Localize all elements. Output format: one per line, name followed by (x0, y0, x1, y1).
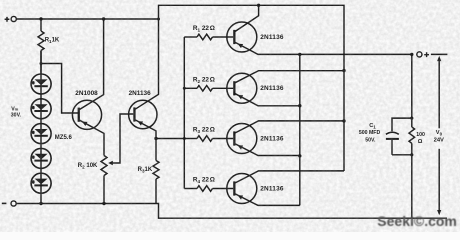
zener diode D3 MZ5.6 (31, 124, 51, 144)
emitter arrow driver (138, 121, 144, 125)
resistor R3 1K (153, 161, 159, 180)
V0 arrow line lower with down arrowhead (438, 149, 440, 213)
transistor Q3 2N1136 output pass (227, 22, 257, 52)
emitter arrow Q6 (238, 195, 244, 199)
wire driver collector up to input rail (135, 19, 158, 109)
node junction dot emitter bus Q4 row (298, 104, 301, 107)
wire output branch down to C1 and 100 ohm (411, 54, 413, 127)
potentiometer R2 10K (101, 156, 107, 176)
node junction dot base bus row2 (183, 87, 186, 90)
node junction dot R2 bottom (102, 202, 105, 205)
wiper arm of R2 to driver base (111, 114, 134, 163)
wire emitter output bus vertical (299, 54, 301, 205)
node junction dot R1 top (39, 17, 42, 20)
resistor 100 ohm load (409, 127, 415, 143)
wire zener diode string vertical (40, 51, 42, 204)
node junction dot top tie (410, 117, 413, 120)
emitter arrow Q3 (238, 44, 244, 48)
wire top rail from + terminal (16, 18, 158, 20)
resistor R1 1K (40, 19, 42, 31)
resistor R2 22 ohm base resistor (184, 87, 197, 89)
wire 2N1008 emitter to R2 (80, 120, 105, 155)
node junction dot Q1 collector on top rail (257, 4, 260, 7)
wire base tap from zener string to 2N1008 base (41, 64, 79, 114)
resistor R1 22 ohm base resistor (184, 36, 197, 38)
zener diode D4 MZ5.6 (31, 148, 51, 168)
wire 2N1008 collector to input rail (80, 19, 104, 110)
wire driver emitter down to R3 (135, 120, 156, 161)
wire Q6 collector (235, 171, 344, 183)
node junction dot emitter bus Q3 row (298, 53, 301, 56)
node junction dot emitter bus Q5 row (298, 154, 301, 157)
input terminal - (negative) (2, 202, 7, 204)
transistor Q5 2N1136 output pass (227, 124, 257, 154)
wire bottom negative rail (16, 204, 447, 219)
node junction dot base bus row3 (183, 137, 186, 140)
resistor R4 22 ohm base resistor (184, 188, 197, 190)
wire bottom tie bar from C1 (392, 154, 412, 156)
node junction dot Q2 collector on right bus (342, 69, 345, 72)
node junction dot 2N1008 collector top (102, 17, 105, 20)
output voltage indicator V0 24V top bar (431, 53, 448, 55)
wire driver emitter to base bus (156, 138, 184, 140)
transistor Q6 2N1136 output pass (227, 174, 257, 204)
zener diode D1 MZ5.6 (31, 74, 51, 94)
wire top tie bar to C1 (392, 118, 412, 131)
wire Q5 collector (235, 121, 344, 133)
output terminal + (positive) (410, 53, 413, 56)
node junction dot Q3 collector on right bus (342, 119, 345, 122)
zener diode D2 MZ5.6 (31, 99, 51, 119)
transistor Q2 2N1136 (driver) (129, 100, 157, 128)
transistor Q1 2N1008 (PNP error amp) (72, 100, 101, 129)
input terminal + (positive) (5, 17, 10, 22)
resistor R3 22 ohm base resistor (184, 138, 197, 140)
zener diode D5 MZ5.6 (31, 173, 51, 193)
wire Q4 collector (235, 71, 344, 83)
wire Q4 emitter (235, 94, 300, 106)
node junction dot zener string top tap (40, 62, 43, 65)
wiper arrowhead (108, 161, 113, 165)
transistor Q4 2N1136 output pass (227, 73, 257, 103)
capacitor C1 500MFD 50V (polarized) (386, 132, 399, 134)
node junction dot driver collector / input rail (157, 18, 160, 21)
wire input rail corner to collector bus (top and right) (159, 5, 345, 171)
V0 arrow line upper with up arrowhead (438, 58, 440, 128)
wire base drive bus vertical (183, 37, 185, 189)
emitter arrow Q5 (238, 145, 244, 149)
wire Q6 emitter (235, 194, 300, 206)
wire Q5 emitter (235, 144, 300, 156)
emitter arrow 2N1008 (82, 122, 88, 126)
wire Q3 emitter (235, 42, 412, 54)
node junction dot zener string bottom (39, 202, 42, 205)
node junction dot bottom tie (410, 153, 413, 156)
wire Q3 collector (235, 5, 258, 31)
node junction dot driver emitter / base bus (154, 137, 157, 140)
emitter arrow Q4 (238, 95, 244, 99)
